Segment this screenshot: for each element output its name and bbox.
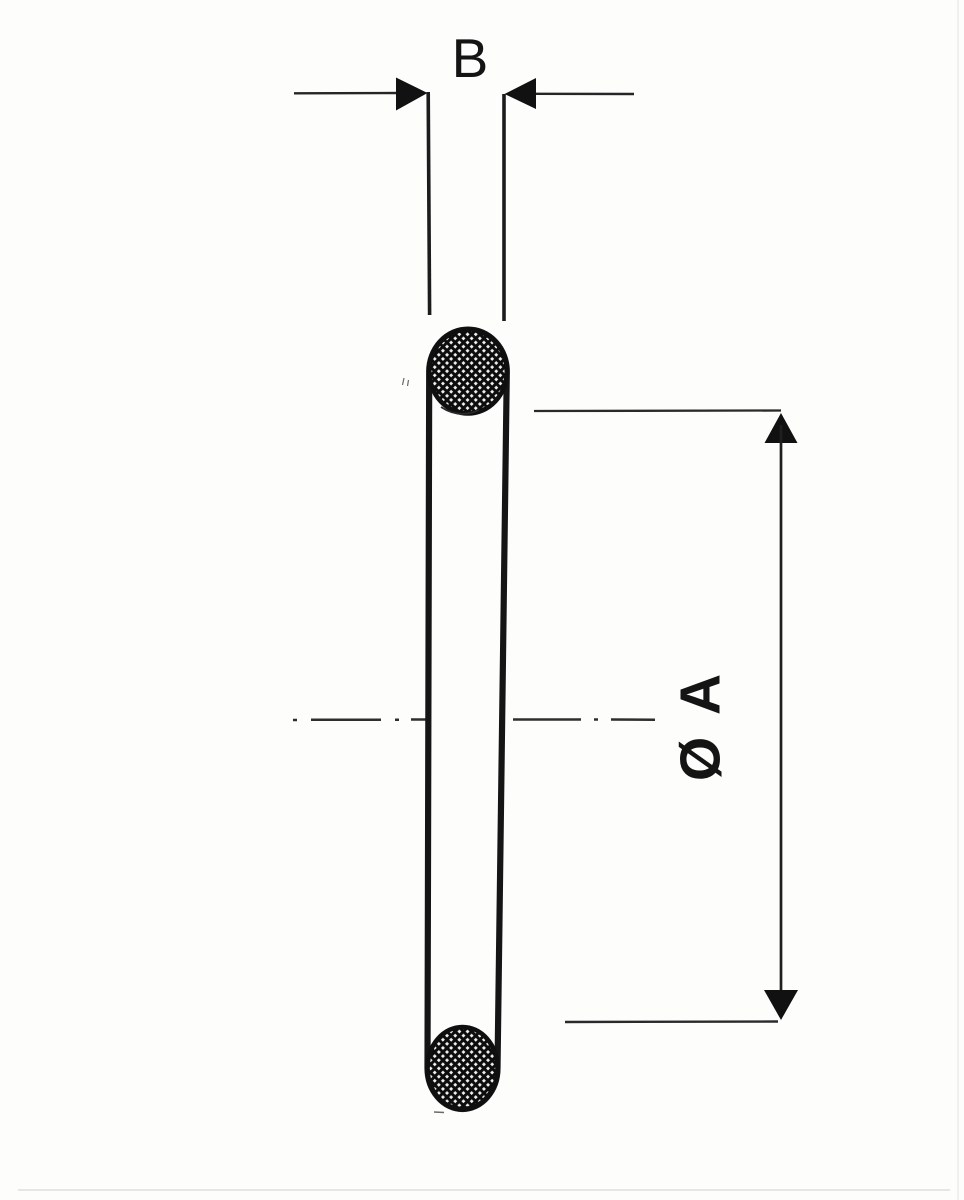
dimension line A vertical <box>780 425 783 1015</box>
arrowhead A bottom <box>764 990 798 1020</box>
dimension line A bottom horizontal <box>565 1020 778 1023</box>
svg-text:Ø A: Ø A <box>669 670 733 781</box>
o-ring bottom cross-section circle <box>428 1027 498 1109</box>
centerline left (dash-dot) <box>293 718 426 721</box>
arrowhead B right <box>505 78 537 109</box>
extension line B left <box>428 92 429 315</box>
centerline right (dash-dot) <box>513 718 655 721</box>
dimension line B right segment <box>536 93 634 96</box>
scan line right edge <box>957 0 959 1200</box>
extension line B right <box>502 94 506 321</box>
scan line bottom <box>18 1189 950 1191</box>
arrowhead B left <box>396 78 428 111</box>
stray mark left of top circle <box>403 378 409 386</box>
dimension line B left segment <box>294 92 400 95</box>
svg-text:B: B <box>452 27 489 89</box>
arrowhead A top <box>765 413 798 443</box>
stray arc under top circle <box>441 407 479 414</box>
o-ring top cross-section circle <box>429 330 507 414</box>
stray mark under bottom circle <box>434 1111 444 1114</box>
o-ring capsule outline <box>428 330 507 1109</box>
dimension line A top horizontal <box>534 409 781 412</box>
